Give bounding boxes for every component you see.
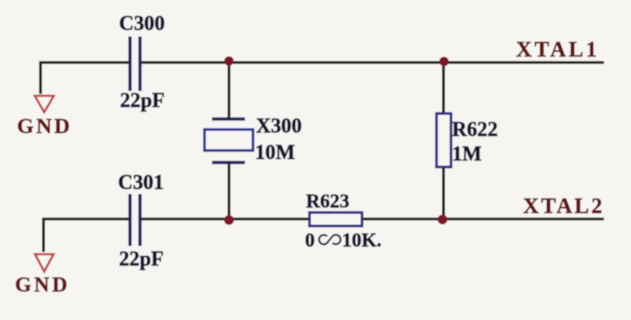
wire: bottom rail from R623 to end (XTAL2) [363, 218, 605, 221]
svg-text:1M: 1M [452, 144, 482, 166]
junction node (top, R622 tap) [439, 57, 448, 66]
ground (bottom left) [15, 254, 70, 296]
value 0~10K (R623) [305, 231, 382, 252]
svg-text:C301: C301 [118, 172, 164, 194]
wire: vertical from crystal X300 down to bottom rail [228, 163, 231, 219]
wire: top rail from C300 right plate to end (XTAL1) [142, 61, 605, 64]
junction node (top, crystal tap) [224, 56, 233, 65]
svg-text:X300: X300 [256, 116, 302, 138]
capacitor C301 plates [130, 194, 140, 246]
wire: bottom rail left segment from corner to C301 left plate [44, 219, 129, 252]
svg-text:0: 0 [305, 231, 315, 252]
svg-text:C300: C300 [119, 13, 165, 35]
svg-text:XTAL1: XTAL1 [516, 37, 600, 62]
svg-text:22pF: 22pF [120, 90, 165, 112]
svg-text:GND: GND [17, 114, 72, 138]
svg-text:10K.: 10K. [342, 231, 382, 252]
ground (top left) [17, 96, 72, 138]
svg-text:R622: R622 [452, 119, 498, 141]
wire: vertical from top rail node down to crystal X300 [228, 63, 231, 120]
wire: bottom rail from C301 right plate to R623 [142, 218, 310, 221]
resistor R623 [310, 213, 363, 227]
junction node (bottom, crystal tap) [224, 215, 234, 225]
svg-text:XTAL2: XTAL2 [523, 193, 605, 218]
svg-text:GND: GND [15, 273, 70, 297]
wire: vertical from R622 down to bottom rail [442, 166, 445, 219]
svg-text:R623: R623 [306, 192, 350, 213]
capacitor C300 plates [130, 37, 140, 92]
svg-text:22pF: 22pF [119, 249, 164, 271]
wire: top rail left segment from corner to C300 left plate [41, 63, 129, 95]
junction node (bottom, R622 tap) [438, 215, 448, 225]
crystal X300 [205, 119, 254, 163]
svg-text:10M: 10M [255, 142, 295, 164]
resistor R622 [437, 114, 452, 168]
wire: vertical from top rail node down to R622 [442, 63, 445, 115]
